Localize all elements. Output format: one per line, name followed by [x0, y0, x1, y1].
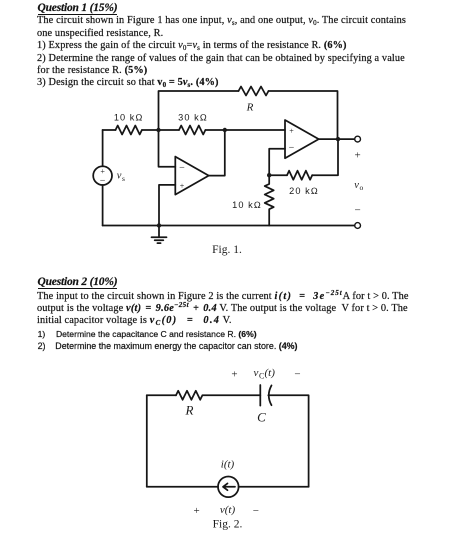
node D junction [336, 137, 340, 141]
wire op1 minus input [159, 130, 176, 167]
wire top rail right [269, 91, 338, 139]
svg-text:o: o [360, 183, 364, 192]
svg-text:(t): (t) [265, 367, 276, 379]
source arrow [223, 483, 235, 490]
resistor R2 [176, 391, 202, 400]
resistor 10k vertical [265, 175, 274, 225]
svg-text:20 kΩ: 20 kΩ [289, 186, 319, 196]
resistor 10k [116, 126, 142, 135]
wire bottom right [239, 486, 309, 488]
node B junction [223, 128, 227, 132]
wire 30k to op2 [206, 129, 286, 131]
resistor 30k [179, 126, 205, 135]
terminal - [355, 223, 361, 229]
wire left branch with source [102, 130, 104, 166]
resistor 20k [287, 171, 312, 180]
svg-text:C: C [257, 410, 266, 425]
svg-text:+: + [231, 369, 237, 381]
wire main left [103, 129, 116, 131]
wire top middle [203, 394, 261, 396]
op-amp U2 [285, 120, 319, 158]
svg-text:v: v [254, 367, 259, 379]
svg-text:10 kΩ: 10 kΩ [232, 200, 262, 210]
svg-text:v(t): v(t) [220, 504, 236, 516]
svg-text:10 kΩ: 10 kΩ [114, 113, 144, 123]
svg-text:Fig. 2.: Fig. 2. [213, 519, 243, 531]
svg-text:Fig. 1.: Fig. 1. [212, 244, 242, 256]
svg-text:−: − [100, 176, 106, 187]
node E junction [157, 223, 161, 227]
svg-text:+: + [289, 126, 294, 135]
node C junction [267, 173, 271, 177]
wire bottom rail [103, 225, 355, 227]
terminal + [355, 136, 361, 142]
svg-text:s: s [122, 174, 125, 183]
resistor R [239, 87, 269, 96]
wire op2 output [319, 138, 355, 140]
svg-text:30 kΩ: 30 kΩ [178, 113, 208, 123]
svg-text:−: − [354, 205, 360, 217]
svg-text:−: − [179, 163, 185, 174]
op-amp U1 [175, 157, 208, 195]
capacitor C plate left [259, 385, 261, 406]
svg-text:−: − [294, 369, 300, 381]
capacitor C plate right curved [269, 385, 272, 405]
svg-text:+: + [354, 150, 360, 162]
node A junction [156, 128, 160, 132]
svg-text:+: + [193, 505, 199, 517]
wire node to 20k [269, 174, 287, 176]
wire between 10k and 30k [142, 129, 179, 131]
wire bottom left [147, 486, 218, 488]
wire left side [146, 395, 148, 487]
svg-text:−: − [253, 505, 259, 517]
wire op1 plus input [159, 185, 175, 226]
wire 20k to output node [312, 139, 338, 175]
current source I1 [218, 477, 239, 498]
ground [158, 226, 160, 238]
svg-text:R: R [246, 102, 254, 114]
source vs [93, 166, 112, 185]
wire top rail with R [159, 91, 239, 130]
wire op1 output [209, 130, 225, 176]
svg-text:+: + [180, 182, 185, 191]
wire top right [268, 395, 308, 487]
svg-text:R: R [185, 403, 194, 418]
wire op2 minus input [269, 149, 285, 176]
wire top left [147, 394, 176, 396]
svg-text:i(t): i(t) [221, 459, 235, 471]
svg-text:−: − [289, 142, 295, 153]
